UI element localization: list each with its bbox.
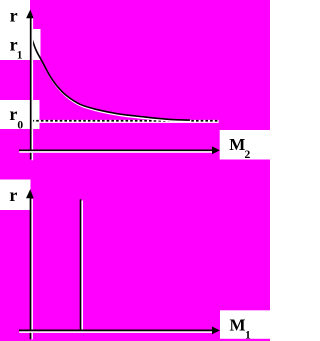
- bottom plot x-axis white halo: [19, 331, 213, 333]
- top plot y-axis arrowhead: [26, 10, 33, 19]
- label box r (top plot y-axis label): [0, 0, 30, 30]
- svg-text:1: 1: [17, 50, 23, 62]
- money supply vertical line: [80, 199, 82, 330]
- dotted line r0 level (white underlay): [32, 120, 219, 123]
- label box r1: [0, 29, 41, 60]
- bottom plot x-axis arrowhead: [212, 327, 220, 335]
- dotted line r0 level (black dashes): [32, 120, 219, 122]
- bottom plot y-axis white halo: [31, 199, 33, 340]
- svg-text:M: M: [229, 135, 245, 154]
- money demand curve white shadow: [32, 37, 191, 121]
- top plot x-axis arrowhead: [212, 146, 220, 154]
- svg-text:1: 1: [245, 330, 251, 341]
- svg-text:M: M: [230, 315, 246, 334]
- bottom plot y-axis arrowhead: [26, 189, 34, 198]
- svg-text:2: 2: [245, 149, 251, 161]
- bottom plot y-axis: [30, 196, 32, 339]
- label box r (bottom plot y-axis label): [0, 180, 31, 211]
- svg-text:r: r: [9, 104, 17, 124]
- money demand curve: [31, 36, 190, 120]
- label box M1: [220, 310, 270, 339]
- svg-text:r: r: [10, 6, 18, 26]
- top plot y-axis: [30, 16, 32, 160]
- top plot y-axis white halo: [31, 18, 33, 160]
- top plot x-axis: [19, 149, 213, 151]
- svg-text:0: 0: [17, 120, 23, 132]
- top plot x-axis white halo: [19, 151, 213, 153]
- bottom plot x-axis: [19, 329, 213, 331]
- money supply vertical line white halo: [81, 201, 83, 332]
- label box r0: [0, 100, 40, 129]
- label box M2: [220, 130, 270, 160]
- svg-text:r: r: [9, 185, 17, 205]
